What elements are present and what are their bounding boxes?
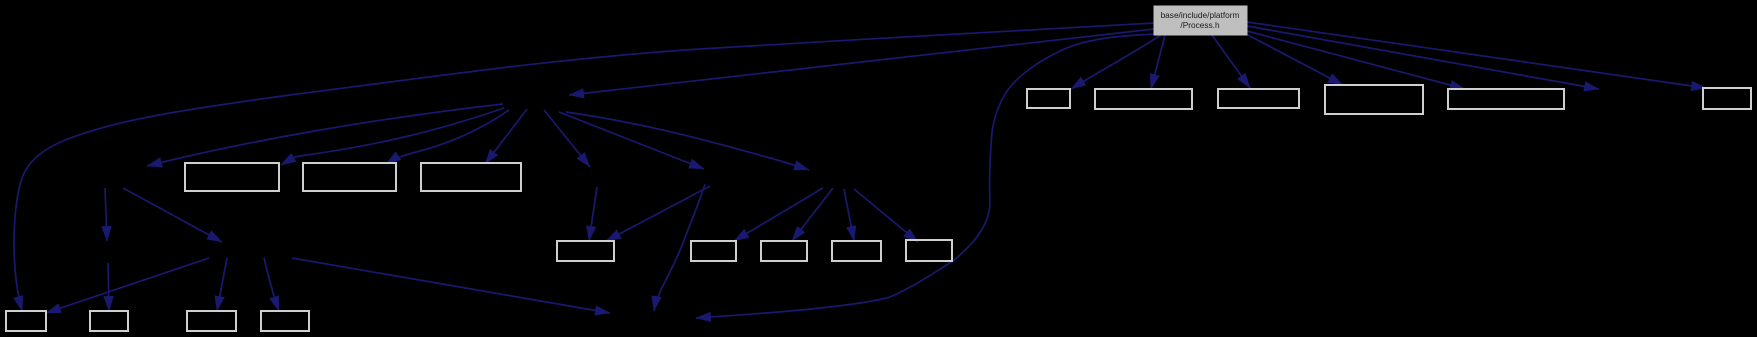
svg-text:/Process.h: /Process.h	[1180, 20, 1220, 30]
svg-text:base/include/platform: base/include/platform	[1161, 10, 1240, 20]
